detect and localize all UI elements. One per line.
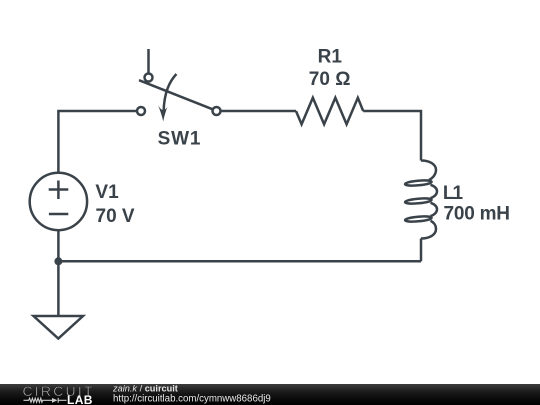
- inductor L1: [405, 161, 437, 239]
- SW1 blade: [139, 80, 213, 109]
- L1 loop ellipse 1: [405, 180, 432, 187]
- wire: bottom rail right to left: [58, 260, 421, 263]
- logo diode: [52, 398, 58, 403]
- wire: L1 bottom down to bottom rail: [420, 239, 423, 262]
- L1 bottom exit curve: [421, 221, 436, 239]
- wire: V1 bottom to ground: [57, 231, 60, 317]
- V1 plus sign: [49, 181, 69, 200]
- svg-text:L1: L1: [443, 183, 464, 204]
- V1 body circle: [30, 173, 87, 230]
- svg-text:SW1: SW1: [158, 128, 201, 149]
- svg-text:R1: R1: [318, 47, 343, 68]
- wire: V1 top up and right to switch left terminal: [58, 111, 137, 173]
- wire: SW1 top stub: [147, 49, 150, 74]
- L1 top entry curve: [421, 161, 436, 181]
- L1 right arc 2: [431, 203, 438, 216]
- logo resistor zigzag: [24, 398, 67, 403]
- svg-text:70 Ω: 70 Ω: [309, 69, 351, 90]
- SW1 actuation arrow: [164, 74, 177, 111]
- wire: R1 to top-right corner and down to L1: [363, 111, 421, 161]
- svg-text:http://circuitlab.com/cymnww86: http://circuitlab.com/cymnww8686dj9: [113, 393, 271, 404]
- SW1 left terminal circle: [137, 107, 145, 115]
- svg-text:V1: V1: [95, 182, 119, 203]
- L1 loop ellipse 2: [405, 198, 432, 205]
- V1 minus sign: [49, 213, 68, 216]
- voltage source V1: [30, 173, 87, 230]
- wire: SW1 right terminal to R1: [221, 110, 297, 113]
- svg-text:70 V: 70 V: [96, 206, 135, 227]
- L1 right arc 1: [431, 185, 438, 198]
- ground symbol: [34, 316, 84, 339]
- node junction dot: [54, 257, 62, 265]
- svg-text:zain.k / cuircuit: zain.k / cuircuit: [112, 384, 178, 394]
- L1 loop ellipse 3: [405, 216, 432, 223]
- switch SW1: [137, 49, 221, 122]
- SW1 top terminal circle: [145, 74, 153, 82]
- svg-text:LAB: LAB: [67, 393, 93, 405]
- SW1 right terminal circle: [213, 107, 221, 115]
- resistor R1: [296, 98, 363, 125]
- svg-text:700 mH: 700 mH: [444, 204, 511, 225]
